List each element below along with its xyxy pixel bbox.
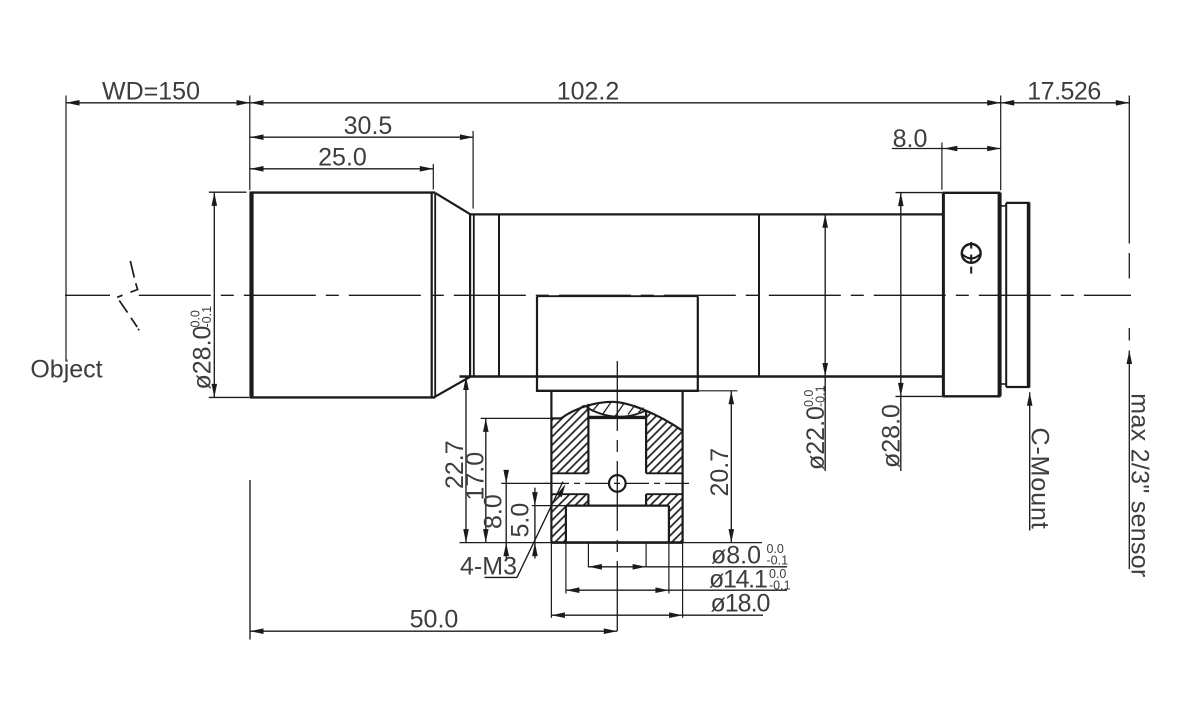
svg-text:WD=150: WD=150 (102, 78, 200, 106)
ext lines below bracket (551, 543, 682, 618)
ext lines dia28 front (209, 191, 247, 193)
main tube body (460, 214, 944, 376)
arrow dim 50.0 left (250, 628, 264, 634)
lens sliver inner arc (587, 407, 647, 416)
bore walls (588, 404, 646, 506)
arrow dim 5.0 top (532, 492, 538, 506)
svg-text:-0.1: -0.1 (200, 306, 214, 328)
ext line 5.0 (532, 505, 566, 507)
dim line dia28 front (213, 192, 215, 397)
dim line 8.0 top (892, 148, 1001, 150)
arrow dim dia22 top (822, 214, 828, 228)
arrow dim 20.7 top (729, 391, 735, 405)
arrow dim WD=150 left (66, 100, 80, 106)
lens front barrel body (250, 193, 436, 398)
dim line 25.0 (250, 168, 433, 170)
barrel taper top (435, 193, 470, 215)
dim line 20.7 (730, 391, 732, 543)
recess step (566, 506, 669, 543)
arrow dim 5.0 bottom (532, 543, 538, 557)
dim line dia22 (824, 214, 826, 471)
main centerline right segment (139, 294, 1131, 296)
C-mount flange (942, 193, 1000, 396)
label dia28.0 front with tolerance (rotated) (189, 306, 217, 390)
svg-text:Object: Object (30, 356, 102, 384)
svg-text:ø22.0: ø22.0 (802, 406, 830, 470)
sensor extension line (1128, 96, 1130, 570)
ext line 50.0 left (249, 480, 251, 640)
barrel taper bottom (434, 377, 470, 398)
svg-text:-0.1: -0.1 (814, 385, 828, 407)
arrow dim 50.0 right (604, 628, 618, 634)
arrow dim 25.0 left (250, 166, 264, 172)
baseline ext at bracket bottom (460, 542, 552, 544)
svg-text:-0.1: -0.1 (767, 553, 789, 567)
C-mount thread barrel (1001, 202, 1030, 387)
bore top thick line (589, 416, 646, 419)
svg-text:17.526: 17.526 (1027, 78, 1100, 106)
dim line dia18 (551, 614, 763, 616)
arrow dim 22.7 bottom (463, 529, 469, 543)
bracket hatch left wall (551, 404, 588, 543)
centerline break zigzag (117, 261, 139, 330)
dim line 22.7 (465, 377, 467, 543)
ext line 17.0 (481, 417, 551, 419)
svg-text:4-M3: 4-M3 (460, 552, 517, 580)
dim line dia14.1 (566, 589, 787, 591)
set screw symbol (962, 242, 981, 274)
svg-text:ø28.0: ø28.0 (189, 326, 217, 390)
arrow dim 25.0 right (420, 166, 434, 172)
arrow dim 20.7 bottom (729, 529, 735, 543)
arrow dim dia22 bottom (822, 363, 828, 377)
svg-text:8.0: 8.0 (893, 125, 928, 153)
arrow dim 17.0 bottom (483, 529, 489, 543)
ext line hole centerline (501, 482, 547, 484)
arrow dim 8.0 right (987, 146, 1001, 152)
top extension lines (66, 96, 1001, 361)
ext line 20.7 (698, 390, 738, 392)
arrow leader sensor (1127, 351, 1133, 365)
dim line 50.0 (250, 630, 617, 632)
arrow leader 4-M3 (557, 483, 568, 498)
dim line 30.5 (250, 136, 473, 138)
ext lines dia28 flange (896, 192, 943, 194)
svg-text:50.0: 50.0 (410, 605, 459, 633)
arrow dim 30.5 left (250, 134, 264, 140)
arrow dim dia14.1 left (566, 587, 580, 593)
arrow dim dia8 right (633, 564, 647, 570)
4-M3 leader (485, 576, 518, 578)
bracket hatch right wall (646, 410, 683, 542)
label dia22.0 with tolerance (rotated) (802, 385, 830, 470)
svg-text:-0.1: -0.1 (769, 578, 791, 592)
arrow dim 8.0 left (944, 146, 958, 152)
arrow dim dia28 front bottom (212, 384, 218, 398)
tube joint line (758, 214, 760, 376)
top dimension chain line (66, 102, 1129, 104)
dim line 17.0 (485, 418, 487, 542)
C-Mount leader line (1029, 392, 1031, 530)
svg-text:ø28.0: ø28.0 (878, 404, 906, 468)
arrow dim dia14.1 right (655, 587, 669, 593)
saddle dome curve (561, 402, 683, 431)
lens sliver hatch (592, 402, 644, 416)
tube ring groove (498, 214, 500, 376)
dim line dia28 flange (900, 193, 902, 471)
arrow dim WD=150 right (237, 100, 251, 106)
arrow leader C-Mount (1027, 392, 1033, 406)
svg-text:ø18.0: ø18.0 (711, 590, 770, 618)
svg-text:25.0: 25.0 (318, 143, 367, 171)
arrow dim 17.526 left (1001, 100, 1015, 106)
main centerline left segment (65, 294, 118, 296)
arrow dim 102.2 left (250, 100, 264, 106)
arrow dim dia18 left (551, 612, 565, 618)
arrow dim dia8 left (588, 564, 602, 570)
arrow dim dia28 flange top (898, 193, 904, 207)
arrow dim 17.526 right (1116, 100, 1130, 106)
mounting block (536, 296, 699, 391)
svg-text:C-Mount: C-Mount (1026, 428, 1054, 530)
arrow dim 8.0 vert bottom (503, 543, 509, 557)
bracket outline (551, 391, 682, 543)
dimension arrowheads (66, 100, 1132, 634)
screw hole walls (551, 473, 682, 494)
dim line 8.0 vertical (505, 471, 507, 559)
front screw hole circle (609, 475, 626, 492)
arrow dim dia28 front top (212, 192, 218, 206)
svg-text:17.0: 17.0 (462, 452, 490, 501)
arrow dim dia18 right (669, 612, 683, 618)
screw hole centerline (545, 482, 691, 484)
dim line dia8 (588, 566, 787, 568)
arrow dim 8.0 vert top (503, 470, 509, 484)
bracket vertical centerline (616, 361, 618, 639)
svg-text:102.2: 102.2 (557, 78, 620, 106)
arrow dim dia28 flange bottom (898, 383, 904, 397)
arrow dim 30.5 right (460, 134, 474, 140)
svg-text:5.0: 5.0 (507, 503, 535, 538)
svg-text:20.7: 20.7 (706, 448, 734, 497)
dim line 5.0 (534, 488, 536, 559)
svg-text:8.0: 8.0 (480, 494, 508, 529)
svg-text:max 2/3" sensor: max 2/3" sensor (1125, 393, 1153, 577)
arrow dim 22.7 top (463, 377, 469, 391)
svg-text:30.5: 30.5 (344, 112, 393, 140)
arrow dim 17.0 top (483, 418, 489, 432)
arrow dim 102.2 right (987, 100, 1001, 106)
